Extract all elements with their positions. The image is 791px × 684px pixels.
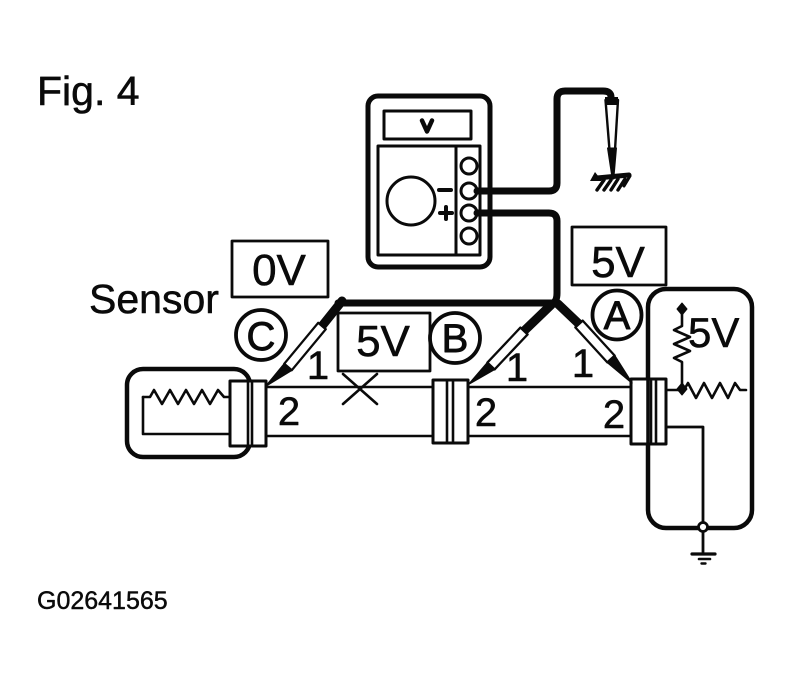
multimeter panel bbox=[378, 146, 480, 255]
plus sign bbox=[440, 211, 452, 215]
connector C bbox=[230, 381, 266, 446]
svg-text:1: 1 bbox=[572, 342, 594, 386]
sensor body bbox=[127, 369, 250, 457]
multimeter display bbox=[384, 111, 471, 139]
svg-text:2: 2 bbox=[603, 393, 625, 437]
terminal 2 bbox=[461, 183, 477, 199]
probe B bbox=[524, 305, 551, 331]
svg-text:A: A bbox=[604, 294, 631, 338]
resistor R1 5V pull-up (vertical) bbox=[674, 312, 690, 384]
svg-text:5V: 5V bbox=[591, 238, 645, 287]
probe negative tip bbox=[608, 148, 617, 179]
wire harness bottom line bbox=[250, 435, 650, 438]
node bottom diamond bbox=[677, 383, 687, 395]
voltage box 5V right bbox=[572, 227, 666, 285]
svg-text:Sensor: Sensor bbox=[89, 276, 219, 322]
wire ECU left edge through connector A bbox=[646, 379, 650, 444]
resistor R2 (horizontal) bbox=[666, 383, 746, 398]
node C circle label bbox=[236, 310, 286, 360]
svg-text:0V: 0V bbox=[252, 246, 306, 295]
terminal 4 bbox=[461, 228, 477, 244]
connector A bbox=[631, 379, 666, 444]
ECU box bbox=[648, 289, 752, 528]
multimeter U1 body bbox=[368, 96, 490, 267]
svg-text:C: C bbox=[247, 315, 276, 359]
svg-text:5V: 5V bbox=[356, 317, 410, 366]
wire connector A pin2 to ground bbox=[666, 427, 703, 522]
probe C bbox=[322, 301, 342, 326]
wire harness top line bbox=[250, 386, 650, 389]
voltage box 5V middle bbox=[338, 313, 430, 371]
voltage box 0V bbox=[232, 241, 328, 297]
wire node to ground bbox=[702, 532, 705, 552]
node B circle label bbox=[430, 313, 480, 363]
svg-text:2: 2 bbox=[475, 391, 497, 435]
dial bbox=[387, 177, 435, 225]
terminal 3 bbox=[461, 205, 477, 221]
svg-text:Fig. 4: Fig. 4 bbox=[37, 68, 140, 114]
resistor inside sensor bbox=[143, 390, 240, 404]
ground at negative probe bbox=[597, 175, 629, 178]
panel divider bbox=[455, 146, 458, 255]
X break mark on wire bbox=[343, 374, 377, 404]
label V on display bbox=[422, 121, 432, 132]
svg-text:1: 1 bbox=[307, 344, 329, 388]
wire sensor loop bbox=[143, 397, 242, 434]
node top diamond bbox=[677, 303, 687, 315]
connector B bbox=[433, 380, 468, 443]
svg-text:5V: 5V bbox=[688, 309, 739, 356]
ground below ECU bbox=[692, 552, 715, 555]
wire positive lead bbox=[477, 213, 557, 303]
minus sign bbox=[439, 188, 451, 192]
node at ECU bottom edge bbox=[699, 523, 708, 532]
svg-text:B: B bbox=[442, 317, 469, 361]
wire fan to C bbox=[338, 300, 552, 307]
junction of probe fan bbox=[551, 299, 560, 308]
probe negative (top) body bbox=[606, 100, 619, 150]
wire negative lead bbox=[477, 91, 611, 191]
svg-text:G02641565: G02641565 bbox=[37, 587, 168, 615]
svg-text:1: 1 bbox=[506, 346, 528, 390]
svg-text:2: 2 bbox=[278, 390, 300, 434]
node A circle label bbox=[593, 291, 642, 340]
terminal 1 bbox=[461, 158, 477, 174]
probe A bbox=[558, 304, 579, 324]
